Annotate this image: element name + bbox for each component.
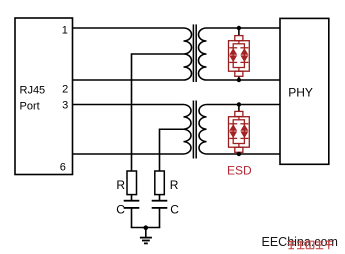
wire pin2 to transformer T1: [73, 79, 184, 81]
capacitor C2 bottom plate: [152, 207, 168, 209]
svg-text:R: R: [116, 178, 125, 192]
ESD2 bottom junction dot: [237, 152, 241, 156]
wire T1 secondary top to PHY: [207, 27, 281, 29]
wire T1 secondary bottom to PHY: [207, 79, 281, 81]
wire T2 secondary top to PHY: [207, 104, 281, 106]
ground bar 3: [144, 242, 148, 244]
ESD2 inner diode array: [229, 117, 248, 148]
capacitor C2 top plate: [152, 200, 168, 202]
svg-text:2: 2: [62, 84, 68, 96]
transformer T1 core: [192, 24, 194, 82]
svg-text:C: C: [170, 202, 179, 216]
transformer T2 secondary winding: [199, 105, 206, 155]
resistor R2 body: [155, 171, 165, 195]
ESD1 bottom terminal pad: [235, 71, 243, 76]
transformer T2 primary winding: [184, 105, 191, 155]
ESD1 inner diode array: [229, 41, 248, 71]
svg-text:1: 1: [62, 24, 68, 36]
ESD1 bottom junction dot: [237, 78, 241, 82]
wire pin3 to transformer T2: [73, 104, 184, 106]
ESD1 bottom stub: [238, 77, 240, 80]
svg-text:ESD: ESD: [227, 164, 252, 178]
wire C1 down: [131, 208, 133, 228]
wire pin1 to transformer T1: [73, 27, 184, 29]
resistor R1 body: [127, 171, 137, 195]
ground stem: [145, 228, 147, 238]
svg-text:C: C: [116, 202, 125, 216]
ESD1 top junction dot: [237, 26, 241, 30]
wire C2 down: [159, 208, 161, 228]
svg-text:Port: Port: [20, 101, 40, 113]
svg-text:R: R: [170, 178, 179, 192]
wire T2 secondary bottom to PHY: [207, 153, 281, 155]
svg-text:RJ45: RJ45: [20, 84, 46, 96]
transformer T1 secondary winding: [199, 28, 207, 80]
capacitor C1 bottom plate: [124, 207, 140, 209]
ESD2 top junction dot: [237, 102, 241, 106]
ESD2 bottom terminal pad: [235, 147, 243, 152]
wire pin6 to transformer T2: [73, 153, 184, 155]
capacitor C1 top plate: [124, 200, 140, 202]
transformer T2 core: [192, 101, 194, 159]
svg-text:PHY: PHY: [288, 85, 313, 99]
svg-text:6: 6: [60, 161, 66, 173]
ESD2 top terminal pad: [235, 111, 243, 116]
PHY chip box: [280, 18, 329, 164]
joining wire to ground: [131, 227, 161, 229]
ground bar 1: [140, 237, 152, 239]
RJ45 Port connector box: [15, 18, 73, 175]
wire R2 to C2: [159, 195, 161, 201]
ground bar 2: [142, 240, 150, 242]
transformer T1 primary winding: [184, 28, 192, 80]
watermark red CJK overlay: [288, 241, 333, 250]
ESD device 1: [229, 26, 250, 82]
ESD2 top stub: [238, 105, 240, 112]
ground junction dot: [144, 225, 149, 230]
T2 center tap wire to R2: [160, 129, 184, 171]
svg-text:3: 3: [62, 99, 68, 111]
ESD1 body box: [229, 41, 250, 71]
ESD2 bottom stub: [238, 153, 240, 154]
wire R1 to C1: [131, 195, 133, 201]
ESD1 top stub: [238, 28, 240, 35]
ESD device 2: [229, 102, 250, 156]
T1 center tap wire to R1: [132, 54, 184, 171]
ESD2 body box: [229, 117, 250, 148]
ESD1 top terminal pad: [235, 36, 243, 41]
